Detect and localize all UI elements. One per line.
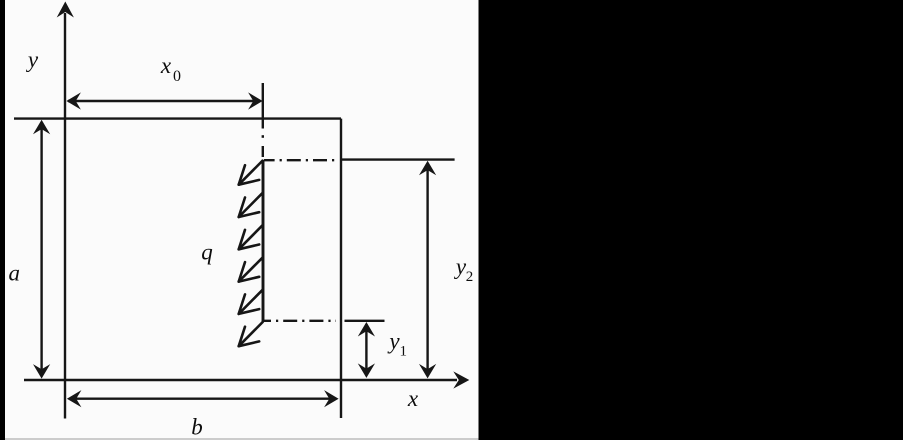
svg-text:x: x bbox=[160, 53, 172, 78]
svg-text:b: b bbox=[191, 415, 203, 440]
svg-text:2: 2 bbox=[466, 269, 474, 285]
svg-text:x: x bbox=[407, 386, 419, 411]
svg-text:y: y bbox=[26, 47, 39, 72]
svg-text:q: q bbox=[201, 240, 213, 265]
svg-text:a: a bbox=[9, 261, 21, 286]
svg-text:y: y bbox=[387, 329, 400, 354]
svg-text:1: 1 bbox=[399, 343, 407, 359]
svg-text:0: 0 bbox=[173, 68, 181, 85]
